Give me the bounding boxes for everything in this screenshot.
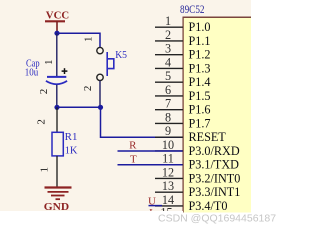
- power VCC: [45, 10, 69, 34]
- svg-text:P3.0/RXD: P3.0/RXD: [189, 144, 240, 158]
- svg-text:1: 1: [165, 14, 171, 28]
- svg-text:1: 1: [43, 59, 55, 64]
- svg-text:3: 3: [165, 42, 171, 56]
- svg-text:P3.4/T0: P3.4/T0: [189, 199, 228, 213]
- wire bottom bus: [57, 106, 101, 108]
- pin 12 P3.2/INT0: [155, 165, 240, 185]
- svg-text:P1.7: P1.7: [189, 116, 211, 130]
- pin 1 P1.0: [155, 14, 211, 34]
- svg-text:12: 12: [162, 165, 174, 179]
- white crop bottom: [0, 213, 276, 232]
- pin 13 P3.3/INT1: [155, 179, 240, 199]
- pin 7 P1.6: [155, 97, 211, 117]
- svg-text:P1.1: P1.1: [189, 34, 211, 48]
- svg-text:P3.3/INT1: P3.3/INT1: [189, 185, 241, 199]
- svg-text:K5: K5: [115, 50, 127, 61]
- svg-text:1: 1: [39, 167, 51, 173]
- svg-text:P1.4: P1.4: [189, 75, 211, 89]
- svg-text:2: 2: [82, 86, 94, 92]
- svg-text:4: 4: [165, 55, 171, 69]
- ground GND: [44, 188, 72, 213]
- node junction right: [98, 105, 103, 110]
- svg-text:P1.2: P1.2: [189, 48, 211, 62]
- resistor R1: [52, 107, 63, 187]
- svg-text:13: 13: [162, 179, 174, 193]
- svg-text:R1: R1: [65, 132, 78, 143]
- pin 8 P1.7: [155, 110, 211, 130]
- svg-text:10: 10: [162, 138, 174, 152]
- svg-text:7: 7: [165, 97, 171, 111]
- svg-text:2: 2: [38, 89, 50, 95]
- svg-text:RESET: RESET: [189, 130, 227, 144]
- svg-text:R: R: [129, 139, 137, 151]
- pin 15 clipped: [160, 206, 172, 220]
- svg-text:P3.2/INT0: P3.2/INT0: [189, 171, 241, 185]
- svg-text:P1.3: P1.3: [189, 61, 211, 75]
- IC U1 89C52 body: [183, 17, 252, 212]
- svg-text:P1.5: P1.5: [189, 89, 211, 103]
- svg-text:1: 1: [83, 37, 95, 43]
- capacitor Cap 10u: [46, 33, 68, 107]
- svg-text:VCC: VCC: [46, 10, 69, 22]
- svg-text:P1.0: P1.0: [189, 20, 211, 34]
- svg-text:6: 6: [165, 83, 171, 97]
- wire top bus VCC to button: [57, 33, 100, 47]
- svg-text:9: 9: [165, 124, 171, 138]
- pin 14 P3.4/T0: [155, 193, 227, 213]
- node junction left: [54, 105, 59, 110]
- svg-text:T: T: [130, 153, 137, 165]
- white crop right: [251, 0, 276, 231]
- pin 11 P3.1/TXD: [155, 152, 239, 172]
- svg-text:2: 2: [165, 28, 171, 42]
- node junction at VCC: [54, 31, 59, 36]
- pin 2 P1.1: [155, 28, 211, 48]
- svg-text:P1.6: P1.6: [189, 103, 211, 117]
- wire net U: [149, 205, 163, 207]
- pin 5 P1.4: [155, 69, 211, 89]
- pin 10 P3.0/RXD: [155, 138, 240, 158]
- wire net R: [118, 150, 183, 152]
- svg-text:P3.1/TXD: P3.1/TXD: [189, 158, 240, 172]
- wire RESET net: [101, 107, 183, 137]
- wire net T: [118, 164, 183, 166]
- svg-text:10u: 10u: [25, 67, 39, 78]
- svg-text:5: 5: [165, 69, 171, 83]
- pin 4 P1.3: [155, 55, 211, 75]
- pin 9 RESET: [155, 124, 226, 144]
- svg-text:CSDN @QQ1694456187: CSDN @QQ1694456187: [158, 213, 276, 225]
- svg-text:1K: 1K: [65, 145, 78, 156]
- wire button to bottom bus: [99, 81, 101, 108]
- pin 6 P1.5: [155, 83, 211, 103]
- svg-text:89C52: 89C52: [180, 4, 205, 16]
- pushbutton K5: [97, 47, 114, 80]
- svg-text:2: 2: [36, 119, 48, 125]
- svg-text:U: U: [148, 195, 156, 207]
- pin 3 P1.2: [155, 42, 211, 62]
- svg-text:8: 8: [165, 110, 171, 124]
- svg-text:11: 11: [162, 152, 174, 166]
